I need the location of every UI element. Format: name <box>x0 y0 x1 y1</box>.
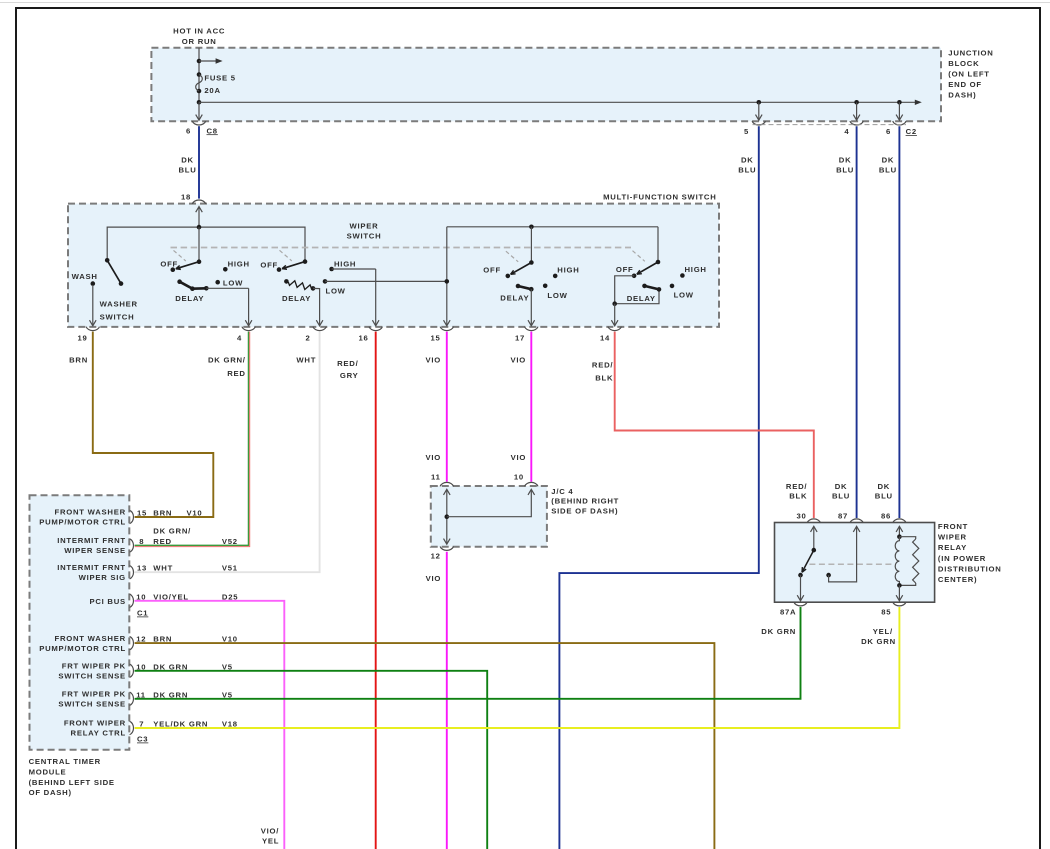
svg-text:V51: V51 <box>222 564 238 573</box>
svg-text:6: 6 <box>886 127 891 136</box>
svg-text:87: 87 <box>838 512 848 521</box>
svg-text:RED/: RED/ <box>337 359 358 368</box>
svg-text:OR RUN: OR RUN <box>182 37 217 46</box>
svg-text:WHT: WHT <box>296 356 316 365</box>
svg-text:SIDE OF DASH): SIDE OF DASH) <box>551 506 618 515</box>
svg-text:DK GRN/: DK GRN/ <box>208 356 246 365</box>
svg-text:4: 4 <box>844 127 849 136</box>
svg-text:14: 14 <box>600 334 610 343</box>
svg-text:BLU: BLU <box>836 165 854 174</box>
svg-text:HIGH: HIGH <box>557 265 579 274</box>
svg-text:BLU: BLU <box>875 492 893 501</box>
svg-text:(ON LEFT: (ON LEFT <box>948 69 989 78</box>
svg-text:RED: RED <box>227 369 245 378</box>
svg-text:87A: 87A <box>780 608 796 617</box>
svg-text:OFF: OFF <box>160 259 178 268</box>
svg-text:WASH: WASH <box>72 272 98 281</box>
svg-text:WIPER: WIPER <box>350 221 379 230</box>
svg-text:10: 10 <box>514 473 524 482</box>
svg-text:DK GRN: DK GRN <box>761 627 796 636</box>
svg-text:15: 15 <box>137 509 147 518</box>
svg-text:DELAY: DELAY <box>282 294 311 303</box>
svg-text:20A: 20A <box>204 86 220 95</box>
svg-text:OF DASH): OF DASH) <box>29 788 72 797</box>
svg-text:BLU: BLU <box>738 165 756 174</box>
svg-text:V52: V52 <box>222 537 238 546</box>
svg-text:BLU: BLU <box>178 165 196 174</box>
svg-text:RED: RED <box>153 537 171 546</box>
svg-text:OFF: OFF <box>260 260 278 269</box>
svg-text:YEL: YEL <box>262 836 279 845</box>
svg-text:13: 13 <box>137 564 147 573</box>
svg-text:PUMP/MOTOR CTRL: PUMP/MOTOR CTRL <box>39 518 126 527</box>
svg-text:SWITCH: SWITCH <box>100 312 135 321</box>
svg-text:DK: DK <box>741 155 754 164</box>
svg-text:VIO/: VIO/ <box>261 826 279 835</box>
svg-text:30: 30 <box>796 512 806 521</box>
svg-text:BLU: BLU <box>832 492 850 501</box>
svg-text:VIO: VIO <box>426 574 442 583</box>
svg-text:C2: C2 <box>906 127 917 136</box>
svg-text:FRT WIPER PK: FRT WIPER PK <box>62 662 126 671</box>
svg-text:FRONT WIPER: FRONT WIPER <box>64 719 126 728</box>
svg-text:PUMP/MOTOR CTRL: PUMP/MOTOR CTRL <box>39 644 126 653</box>
svg-text:BLU: BLU <box>879 165 897 174</box>
svg-text:WIPER SENSE: WIPER SENSE <box>64 546 126 555</box>
svg-text:DK: DK <box>181 155 194 164</box>
svg-text:LOW: LOW <box>223 279 243 288</box>
svg-text:11: 11 <box>431 473 441 482</box>
svg-text:RELAY CTRL: RELAY CTRL <box>71 729 126 738</box>
svg-text:BLOCK: BLOCK <box>948 59 979 68</box>
svg-text:DELAY: DELAY <box>627 294 656 303</box>
svg-text:DK: DK <box>877 482 890 491</box>
svg-text:(BEHIND RIGHT: (BEHIND RIGHT <box>551 497 619 506</box>
svg-text:LOW: LOW <box>674 291 694 300</box>
svg-text:FRONT: FRONT <box>938 522 968 531</box>
svg-text:DK: DK <box>882 155 895 164</box>
svg-text:BRN: BRN <box>69 356 88 365</box>
svg-text:5: 5 <box>744 127 749 136</box>
svg-text:LOW: LOW <box>326 287 346 296</box>
svg-text:RELAY: RELAY <box>938 543 967 552</box>
svg-text:V10: V10 <box>187 509 203 518</box>
svg-text:(IN POWER: (IN POWER <box>938 554 986 563</box>
svg-text:OFF: OFF <box>483 265 501 274</box>
svg-text:15: 15 <box>430 334 440 343</box>
svg-text:4: 4 <box>237 334 242 343</box>
svg-text:8: 8 <box>139 537 144 546</box>
svg-text:HIGH: HIGH <box>228 259 250 268</box>
svg-text:C1: C1 <box>137 609 148 618</box>
svg-text:BRN: BRN <box>153 509 172 518</box>
svg-text:86: 86 <box>881 512 891 521</box>
svg-text:J/C 4: J/C 4 <box>551 487 573 496</box>
svg-text:INTERMIT FRNT: INTERMIT FRNT <box>57 563 126 572</box>
svg-text:12: 12 <box>431 552 441 561</box>
svg-text:SWITCH SENSE: SWITCH SENSE <box>58 700 126 709</box>
svg-text:FRONT WASHER: FRONT WASHER <box>55 508 126 517</box>
svg-text:FRONT WASHER: FRONT WASHER <box>55 634 126 643</box>
svg-text:BLK: BLK <box>789 492 807 501</box>
svg-text:CENTRAL TIMER: CENTRAL TIMER <box>29 757 101 766</box>
svg-text:RED/: RED/ <box>786 482 807 491</box>
svg-text:DK: DK <box>839 155 852 164</box>
svg-text:DISTRIBUTION: DISTRIBUTION <box>938 564 1002 573</box>
svg-text:(BEHIND LEFT SIDE: (BEHIND LEFT SIDE <box>29 778 115 787</box>
svg-text:17: 17 <box>515 334 525 343</box>
svg-text:16: 16 <box>358 334 368 343</box>
svg-text:6: 6 <box>186 126 191 135</box>
svg-text:BLK: BLK <box>595 374 613 383</box>
svg-text:HIGH: HIGH <box>334 259 356 268</box>
svg-text:VIO: VIO <box>511 453 527 462</box>
svg-text:WASHER: WASHER <box>100 300 138 309</box>
svg-text:VIO: VIO <box>426 356 442 365</box>
svg-text:DK GRN/: DK GRN/ <box>153 526 191 535</box>
svg-text:18: 18 <box>181 192 191 201</box>
svg-text:85: 85 <box>881 608 891 617</box>
svg-text:C3: C3 <box>137 735 148 744</box>
svg-text:C8: C8 <box>207 126 218 135</box>
svg-text:OFF: OFF <box>616 265 634 274</box>
svg-text:DASH): DASH) <box>948 90 976 99</box>
svg-text:FRT WIPER PK: FRT WIPER PK <box>62 690 126 699</box>
svg-text:WHT: WHT <box>153 564 173 573</box>
svg-text:PCI BUS: PCI BUS <box>89 597 125 606</box>
svg-text:DELAY: DELAY <box>500 293 529 302</box>
svg-text:CENTER): CENTER) <box>938 575 977 584</box>
svg-text:DK: DK <box>835 482 848 491</box>
svg-text:INTERMIT FRNT: INTERMIT FRNT <box>57 536 126 545</box>
svg-text:HIGH: HIGH <box>685 265 707 274</box>
svg-text:DK GRN: DK GRN <box>861 637 896 646</box>
svg-text:DELAY: DELAY <box>175 294 204 303</box>
svg-text:SWITCH SENSE: SWITCH SENSE <box>58 672 126 681</box>
svg-text:MULTI-FUNCTION SWITCH: MULTI-FUNCTION SWITCH <box>603 192 716 201</box>
svg-text:2: 2 <box>305 334 310 343</box>
svg-text:MODULE: MODULE <box>29 767 67 776</box>
svg-text:LOW: LOW <box>547 291 567 300</box>
svg-text:END OF: END OF <box>948 80 982 89</box>
svg-text:FUSE 5: FUSE 5 <box>204 74 235 83</box>
svg-text:19: 19 <box>77 334 87 343</box>
svg-text:SWITCH: SWITCH <box>347 231 382 240</box>
svg-text:JUNCTION: JUNCTION <box>948 48 993 57</box>
svg-text:WIPER SIG: WIPER SIG <box>79 573 126 582</box>
svg-text:HOT IN ACC: HOT IN ACC <box>173 27 225 36</box>
svg-text:WIPER: WIPER <box>938 533 967 542</box>
svg-text:VIO: VIO <box>511 356 527 365</box>
svg-text:VIO: VIO <box>426 453 442 462</box>
svg-text:GRY: GRY <box>340 371 359 380</box>
svg-text:RED/: RED/ <box>592 360 613 369</box>
svg-text:YEL/: YEL/ <box>873 627 893 636</box>
